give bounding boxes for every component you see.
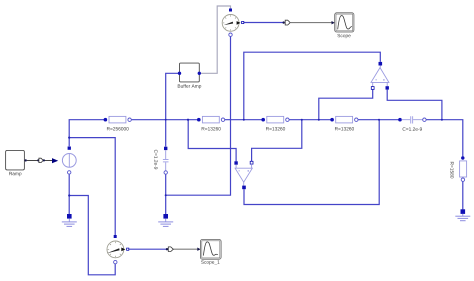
voltage sensor S2 (gauge, bottom) — [107, 235, 129, 264]
wire node R1R2 to op-amp U1 minus input — [188, 120, 236, 162]
node C2R5 junction at U2 plus branch — [441, 119, 443, 121]
node V1 bottom ground junction — [68, 194, 70, 196]
op-amp U2 (pointing up) — [371, 62, 389, 90]
wire feedback op-amp U2 output top to node R2R3 — [244, 52, 380, 120]
node R4C2 junction at U1 output branch — [378, 119, 380, 121]
resistor R4 R=13260 — [330, 116, 358, 130]
wire C2 right to R5 top — [424, 120, 462, 157]
voltage sensor S1 (gauge) — [222, 9, 244, 37]
wire gray signal to Scope_1 — [172, 248, 198, 250]
capacitor C2 C=1.2e-9 (horizontal) — [398, 116, 426, 131]
wire voltage sensor bottom down then left to C1 ground net — [166, 36, 231, 195]
node R3R4 junction at U2 minus branch — [318, 119, 320, 121]
wire row R1 to R2 — [131, 119, 199, 121]
resistor R2 R=13260 — [197, 116, 225, 130]
signal connector to Scope (pentagon) — [283, 20, 291, 25]
node R3R4 junction at U1 plus branch — [301, 119, 303, 121]
signal voltage source V1 — [62, 147, 76, 175]
Scope_1 input arrow — [197, 248, 200, 251]
node V1 top junction to sensor S2 — [68, 137, 70, 139]
wire node R1R2 up to Buffer Amp left pin — [166, 73, 180, 119]
wire row R3 to R4 — [287, 119, 332, 121]
node R1R2 junction at C1 branch — [165, 119, 167, 121]
resistor R3 R=13260 — [261, 116, 289, 130]
node C1 ground junction — [165, 194, 167, 196]
Buffer Amp block — [178, 63, 201, 89]
wire node R1R2 down to C1 top — [165, 120, 167, 147]
wire op-amp U2 plus input down to node C2R5 — [387, 90, 442, 120]
resistor R1 R=256000 — [104, 116, 132, 130]
wire row R2 to R3 — [223, 119, 263, 121]
wire C1 bottom to ground G2 — [165, 174, 167, 214]
wire op-amp U1 plus input up to node R3R4 — [252, 120, 302, 162]
ground G2 — [158, 214, 173, 226]
wire signalVoltage bottom to ground G1 — [68, 174, 70, 214]
wire op-amp U2 minus input down to node R3R4 — [319, 90, 373, 120]
wire from R1 left to signalVoltage top — [69, 120, 105, 147]
Ramp output connector (white pentagon) — [37, 158, 45, 162]
wire sensor S2 output signal — [129, 248, 167, 250]
signalVoltage input arrow — [52, 158, 58, 163]
Scope input arrow — [332, 21, 335, 24]
Ramp source block — [6, 150, 27, 176]
node R2R3 junction at feedback branch — [243, 119, 245, 121]
ground G1 — [62, 214, 77, 226]
wire op-amp U1 output to node R4C2 — [244, 120, 379, 205]
signal connector to Scope_1 (pentagon) — [166, 247, 174, 252]
Scope_1 block — [200, 240, 221, 265]
op-amp U1 (pointing down) — [234, 161, 253, 189]
capacitor C1 C=1.2e-9 (vertical) — [154, 147, 168, 175]
resistor R5 R=1580 (vertical) — [450, 156, 466, 181]
wire Ramp output to signalVoltage input — [27, 159, 52, 161]
wire node top of signalVoltage to sensor S2 top — [69, 138, 115, 235]
wire row R4 to C2 — [356, 119, 400, 121]
wire Buffer Amp right pin to voltage sensor top — [201, 6, 231, 73]
ground G3 — [455, 209, 470, 220]
wire ground net to current sensor bottom — [69, 196, 115, 275]
node R1R2 junction at op-amp branch — [187, 119, 189, 121]
Scope block — [335, 13, 354, 38]
wire voltage sensor output signal — [244, 22, 283, 24]
wire gray signal to Scope — [291, 22, 332, 24]
wire R5 bottom to ground G3 — [462, 182, 464, 210]
